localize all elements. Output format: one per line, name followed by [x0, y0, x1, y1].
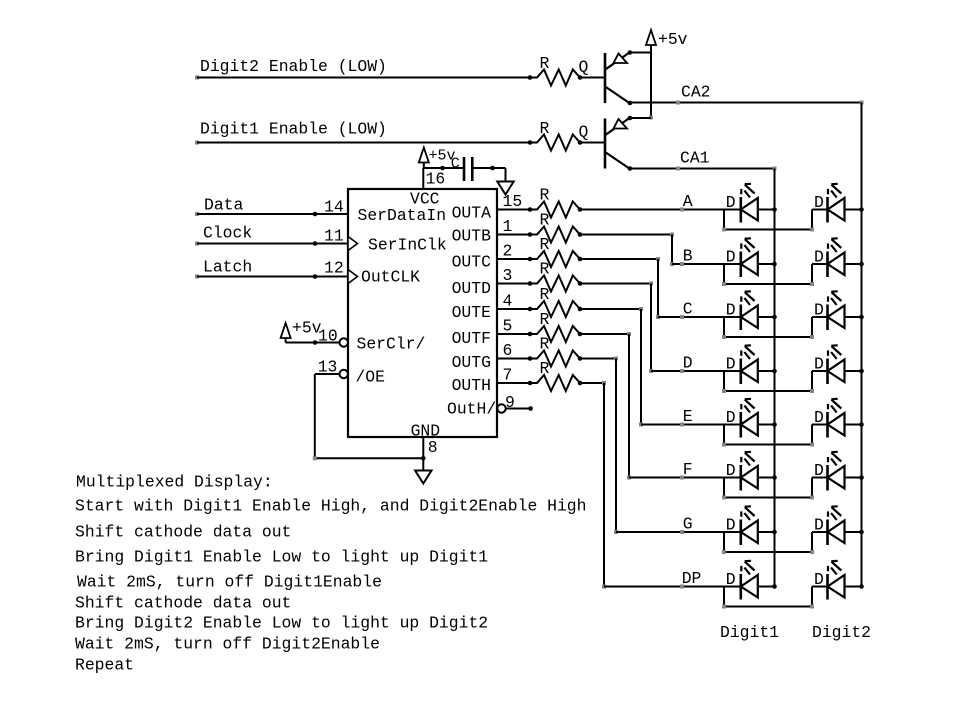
svg-text:OUTC: OUTC: [452, 253, 492, 272]
svg-text:4: 4: [503, 292, 513, 311]
svg-text:Bring Digit1 Enable Low to lig: Bring Digit1 Enable Low to light up Digi…: [75, 548, 488, 567]
svg-text:Q: Q: [579, 58, 589, 77]
svg-text:B: B: [683, 247, 693, 266]
svg-text:C: C: [683, 300, 693, 319]
svg-text:OUTG: OUTG: [452, 353, 491, 372]
svg-text:SerClr/: SerClr/: [357, 335, 426, 354]
svg-text:C: C: [451, 156, 460, 173]
svg-text:OutH/: OutH/: [447, 400, 496, 419]
svg-text:8: 8: [428, 438, 438, 457]
svg-text:Digit2: Digit2: [812, 623, 871, 642]
svg-text:D: D: [726, 570, 736, 589]
svg-text:16: 16: [426, 169, 446, 188]
svg-text:Bring Digit2 Enable Low to lig: Bring Digit2 Enable Low to light up Digi…: [75, 614, 488, 633]
svg-text:D: D: [726, 355, 736, 374]
svg-text:13: 13: [318, 358, 338, 377]
svg-text:D: D: [814, 461, 824, 480]
svg-text:Digit2 Enable (LOW): Digit2 Enable (LOW): [200, 57, 387, 76]
svg-text:G: G: [683, 515, 693, 534]
svg-text:DP: DP: [682, 569, 702, 588]
svg-text:12: 12: [324, 259, 344, 278]
svg-text:SerInClk: SerInClk: [368, 236, 447, 255]
svg-text:D: D: [814, 570, 824, 589]
svg-text:D: D: [726, 516, 736, 535]
svg-text:2: 2: [503, 242, 513, 261]
svg-text:Shift cathode data out: Shift cathode data out: [75, 594, 291, 613]
svg-text:+5v: +5v: [658, 30, 688, 49]
svg-text:OUTF: OUTF: [452, 329, 491, 348]
svg-text:OUTB: OUTB: [452, 227, 492, 246]
svg-text:OutCLK: OutCLK: [361, 268, 420, 287]
svg-text:Wait 2mS, turn off Digit2Enabl: Wait 2mS, turn off Digit2Enable: [75, 635, 380, 654]
svg-text:D: D: [814, 408, 824, 427]
svg-text:Wait 2mS, turn off Digit1Enabl: Wait 2mS, turn off Digit1Enable: [77, 573, 382, 592]
svg-text:D: D: [814, 193, 824, 212]
svg-text:3: 3: [503, 266, 513, 285]
svg-text:Latch: Latch: [203, 258, 252, 277]
svg-text:Shift cathode data out: Shift cathode data out: [75, 523, 291, 542]
svg-text:E: E: [683, 407, 693, 426]
svg-text:OUTH: OUTH: [452, 376, 491, 395]
svg-text:7: 7: [503, 366, 513, 385]
svg-text:D: D: [814, 301, 824, 320]
svg-text:1: 1: [503, 217, 513, 236]
svg-text:A: A: [683, 192, 693, 211]
svg-text:Repeat: Repeat: [75, 656, 134, 675]
svg-text:D: D: [683, 354, 693, 373]
svg-text:OUTD: OUTD: [452, 279, 491, 298]
svg-text:Digit1 Enable (LOW): Digit1 Enable (LOW): [200, 120, 387, 139]
svg-text:D: D: [726, 301, 736, 320]
svg-text:OUTE: OUTE: [452, 303, 491, 322]
svg-text:D: D: [814, 516, 824, 535]
svg-text:Multiplexed Display:: Multiplexed Display:: [76, 473, 273, 492]
svg-text:D: D: [726, 193, 736, 212]
svg-text:D: D: [726, 461, 736, 480]
svg-text:Clock: Clock: [203, 224, 252, 243]
svg-text:SerDataIn: SerDataIn: [358, 206, 447, 225]
svg-text:D: D: [814, 248, 824, 267]
svg-text:OUTA: OUTA: [452, 204, 492, 223]
svg-text:F: F: [683, 460, 693, 479]
svg-text:14: 14: [324, 198, 344, 217]
svg-text:9: 9: [505, 393, 515, 412]
svg-text:D: D: [814, 355, 824, 374]
svg-text:6: 6: [503, 341, 513, 360]
svg-text:Data: Data: [204, 196, 244, 215]
svg-text:/OE: /OE: [355, 368, 385, 387]
svg-text:5: 5: [503, 317, 513, 336]
svg-text:CA2: CA2: [681, 83, 711, 102]
svg-text:D: D: [726, 408, 736, 427]
svg-text:15: 15: [503, 192, 523, 211]
svg-text:Start with Digit1 Enable High,: Start with Digit1 Enable High, and Digit…: [75, 497, 586, 516]
svg-text:11: 11: [324, 227, 344, 246]
svg-text:Q: Q: [579, 123, 589, 142]
svg-text:Digit1: Digit1: [720, 623, 779, 642]
svg-text:D: D: [726, 248, 736, 267]
svg-text:10: 10: [318, 327, 338, 346]
svg-text:CA1: CA1: [680, 149, 710, 168]
